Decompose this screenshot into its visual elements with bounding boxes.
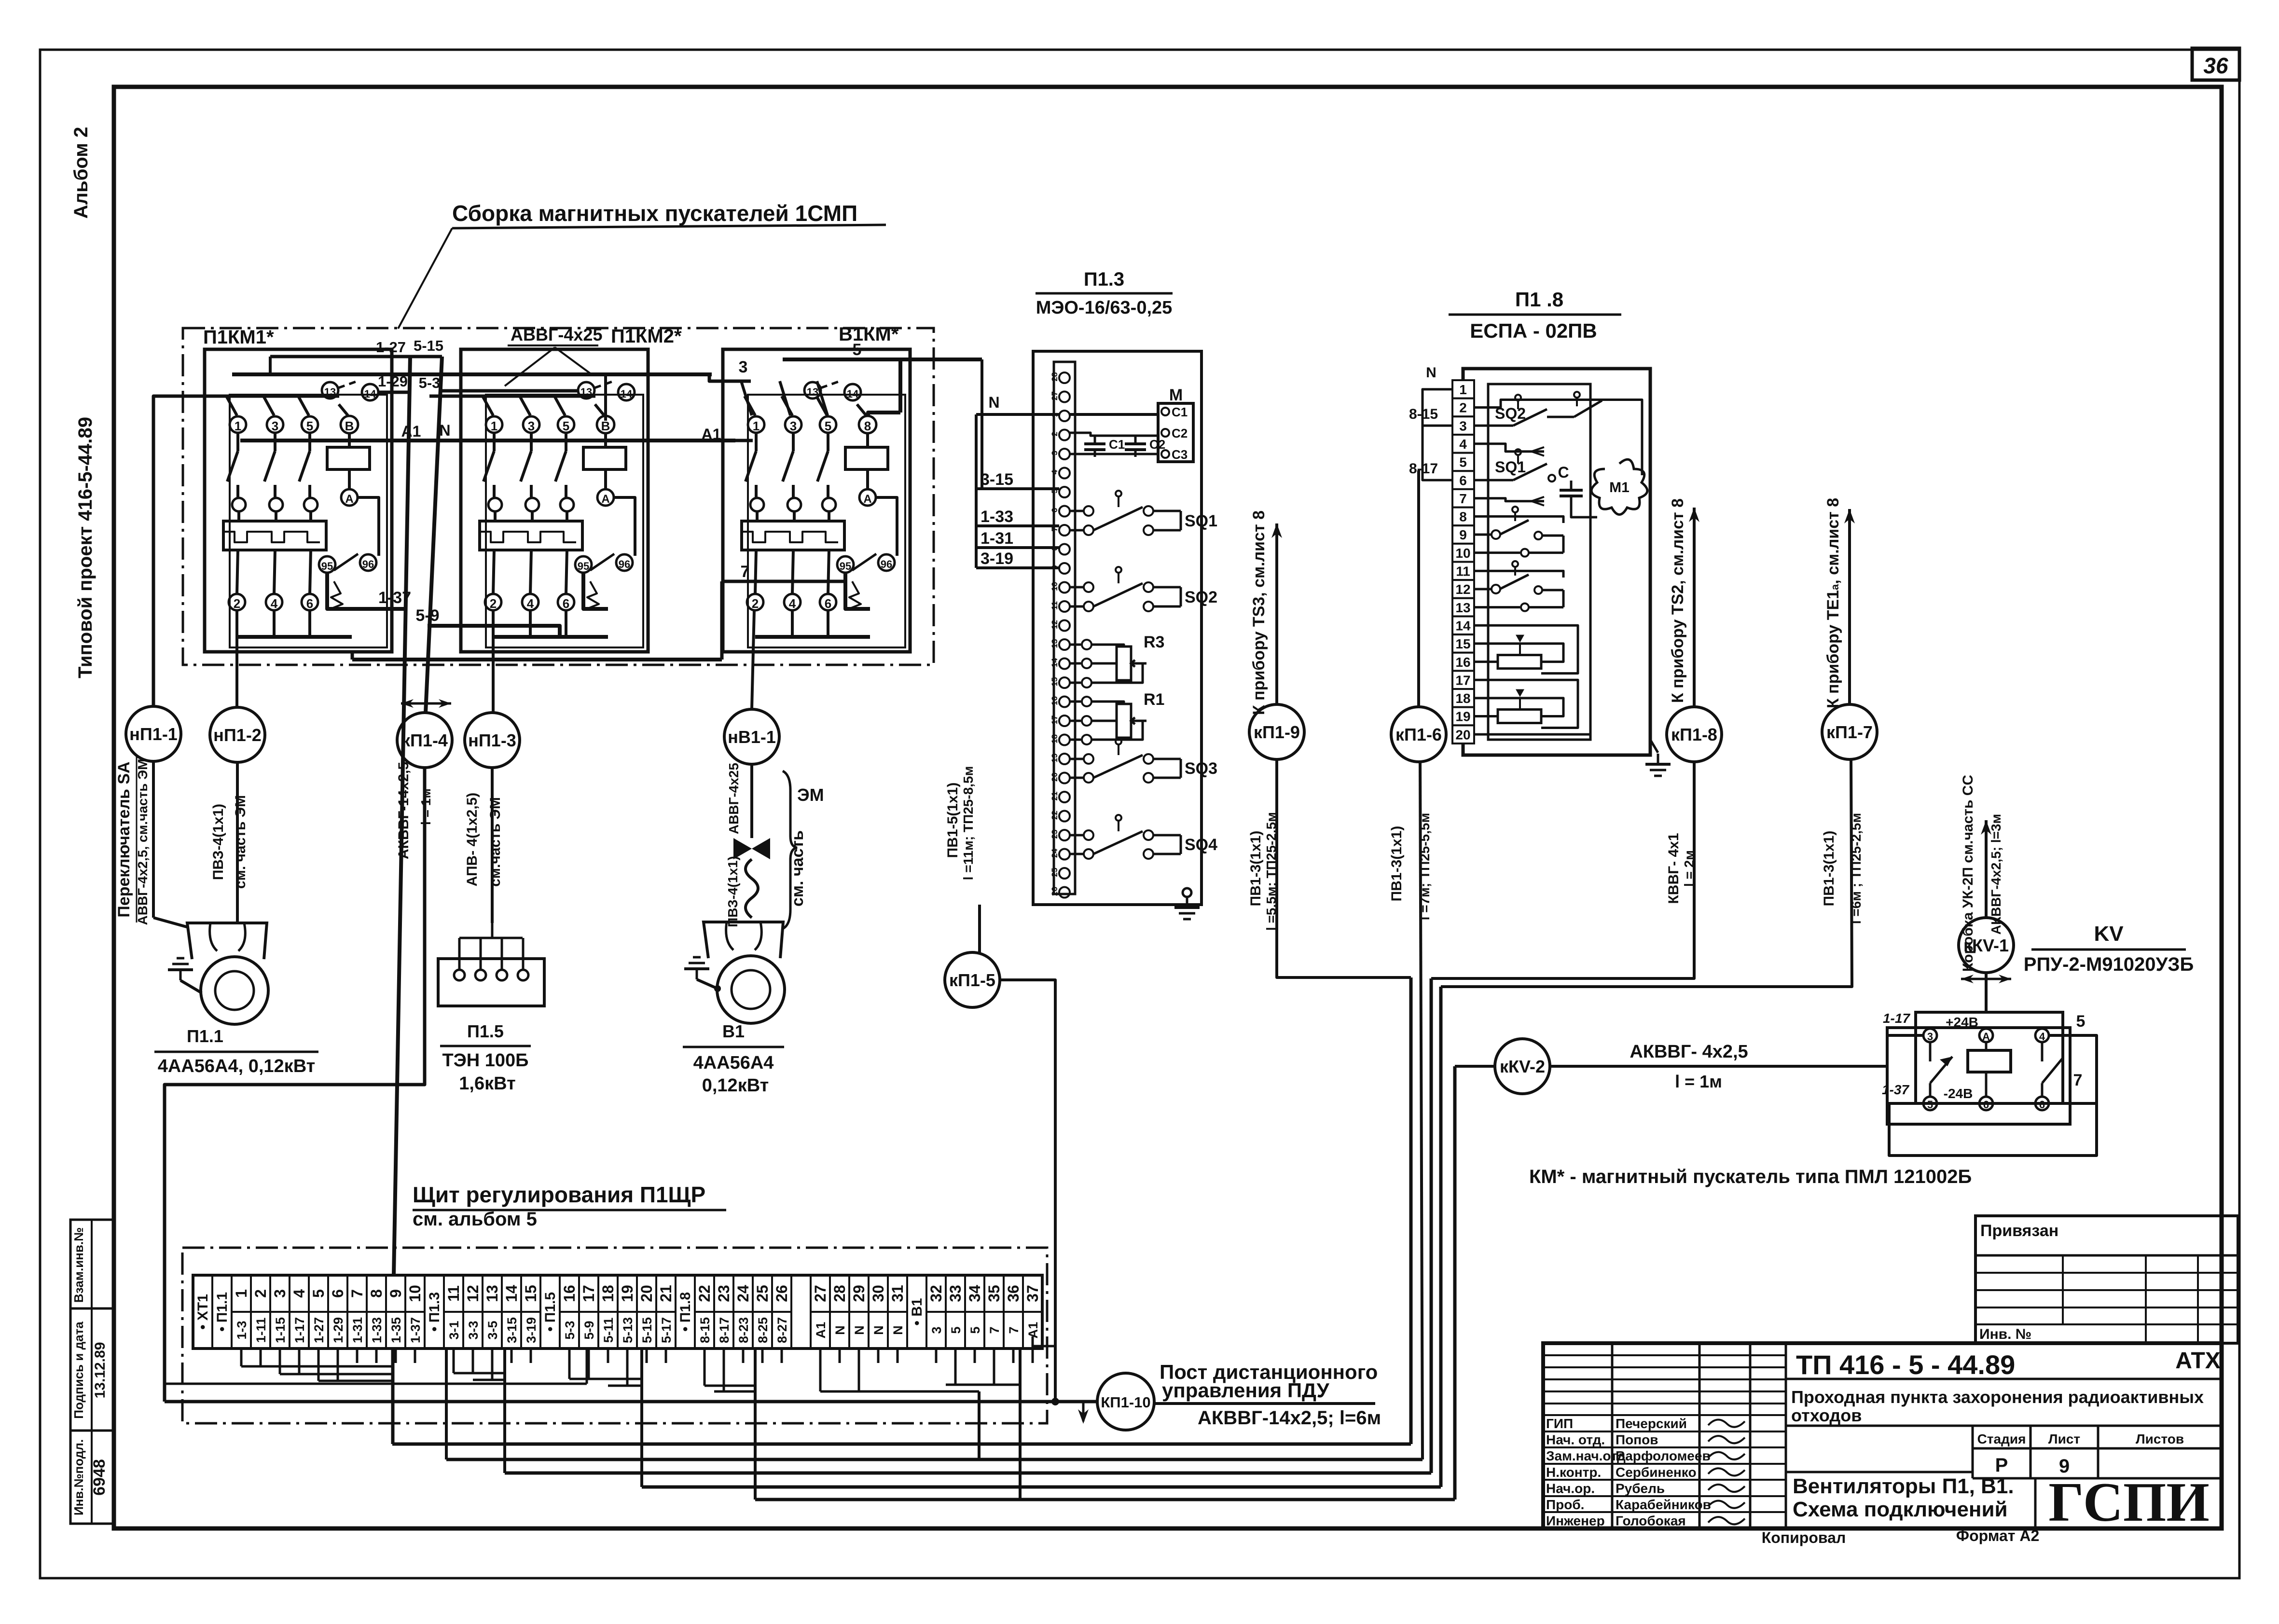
svg-text:КВВГ- 4х1: КВВГ- 4х1: [1666, 833, 1682, 904]
svg-text:21: 21: [1050, 792, 1059, 801]
svg-text:7: 7: [2073, 1071, 2083, 1089]
svg-text:П1.1: П1.1: [187, 1026, 223, 1046]
svg-text:ПВЗ-4(1х1): ПВЗ-4(1х1): [210, 804, 226, 880]
svg-text:8-23: 8-23: [736, 1317, 751, 1343]
svg-text:13: 13: [483, 1285, 501, 1302]
wire: 5-9 exit: [428, 626, 560, 637]
П1.8 terminal 15: [1452, 634, 1474, 653]
svg-text:17: 17: [1455, 673, 1470, 688]
svg-text:3: 3: [272, 419, 278, 433]
limit switch SQ4: [1070, 834, 1083, 837]
svg-text:5-9: 5-9: [415, 606, 439, 625]
svg-text:SQ2: SQ2: [1185, 588, 1217, 606]
svg-text:96: 96: [619, 558, 630, 570]
line up Коробка УК-2П: [1985, 820, 1988, 918]
П1.8 terminal 18: [1452, 689, 1474, 707]
svg-text:N: N: [852, 1325, 867, 1335]
strip terminal 21 / 5-17: [656, 1311, 676, 1313]
П1.3 terminal 10: [1059, 582, 1070, 593]
svg-text:19: 19: [619, 1285, 636, 1302]
svg-text:3-15: 3-15: [981, 470, 1013, 489]
svg-text:КМ* - магнитный пускатель: КМ* - магнитный пускатель типа ПМЛ 12100…: [1529, 1166, 1972, 1187]
inner panel rectangle: [230, 395, 387, 647]
svg-text:28: 28: [831, 1285, 848, 1302]
В1КМ thick top wire 5: [868, 413, 900, 416]
svg-text:Инв.№подл.: Инв.№подл.: [71, 1439, 86, 1515]
svg-text:B: B: [345, 419, 354, 433]
wire terminal 20 to box right: [1474, 733, 1590, 736]
bottom terminal circles 2 4 6: [755, 550, 756, 594]
wire кП1-9 down: [1277, 759, 1411, 977]
wire нП1-2 down to motor П1.1: [236, 762, 239, 923]
resistor at terminals 18-19: [1498, 710, 1541, 723]
strip terminal 12 / 3-3: [463, 1311, 483, 1313]
svg-text:14: 14: [503, 1285, 520, 1302]
R3 circuit: [1117, 647, 1131, 680]
risers from top buses to П1.3: [975, 414, 978, 568]
svg-text:Нач. отд.: Нач. отд.: [1546, 1432, 1605, 1447]
riser col37 down: [445, 1349, 448, 1459]
svg-text:N: N: [833, 1325, 847, 1335]
svg-text:5: 5: [1459, 455, 1467, 470]
svg-text:15: 15: [1455, 636, 1470, 651]
svg-text:ПВЗ-4(1х1): ПВЗ-4(1х1): [725, 856, 740, 927]
thermal relay contacts 95 96: [837, 556, 854, 573]
svg-text:7: 7: [1007, 1326, 1021, 1334]
svg-text:32: 32: [927, 1285, 945, 1302]
wire нП1-3 down to ТЭН П1.5: [491, 768, 494, 923]
svg-text:12: 12: [1455, 582, 1470, 597]
cable splice bow-tie symbol: [733, 838, 752, 859]
svg-text:2: 2: [1459, 400, 1467, 415]
cable node кП1-9: [1249, 704, 1304, 759]
svg-text:3-15: 3-15: [505, 1317, 519, 1343]
vertical riser bus 1-xx: [394, 357, 410, 1275]
svg-text:17: 17: [1050, 716, 1059, 725]
svg-text:Зам.нач.отд: Зам.нач.отд: [1546, 1448, 1626, 1463]
П1.3 terminal 20: [1059, 773, 1070, 784]
svg-text:1: 1: [1459, 382, 1467, 397]
svg-text:5: 5: [825, 419, 831, 433]
wire нВ1-1 down to В1 motor: [750, 764, 753, 838]
wire: П1КМ1 1-37 exit: [352, 607, 404, 611]
wire terminal1 to M C1: [1070, 413, 1157, 416]
svg-text:33: 33: [947, 1285, 964, 1302]
wires below strip (stub drops): [240, 1349, 243, 1363]
svg-text:14: 14: [621, 388, 633, 400]
svg-text:6: 6: [2039, 1099, 2045, 1111]
limit switch SQ3: [1070, 758, 1083, 760]
strip terminal 1 / 1-3: [232, 1311, 251, 1313]
wire нП1-2 from П1КМ1 terminal 2: [235, 610, 238, 707]
svg-text:4: 4: [789, 596, 796, 611]
svg-text:А1: А1: [814, 1322, 828, 1339]
svg-text:Голобокая: Голобокая: [1616, 1514, 1686, 1528]
svg-text:В1: В1: [722, 1021, 745, 1041]
wires 3-15 1-33 1-31 3-19 into П1.3: [976, 487, 1059, 490]
П1.3 terminal 17: [1059, 716, 1070, 726]
dash-dot enclosure box 1СМП: [183, 328, 934, 665]
svg-text:• П1.8: • П1.8: [677, 1292, 693, 1332]
main АВВГ bus: [232, 372, 712, 376]
drop arrow before КП1-10: [1082, 1402, 1085, 1421]
heater П1.5 block: [438, 959, 544, 1006]
svg-text:Попов: Попов: [1616, 1432, 1658, 1447]
П1.3 terminal 8: [1059, 544, 1070, 555]
ground П1.1: [180, 980, 202, 993]
vertical riser bus 5-xx: [426, 357, 442, 713]
svg-text:l = 2м: l = 2м: [1682, 850, 1697, 887]
KV relay outer wire loop: [1889, 1035, 2097, 1156]
top terminal circles 1 3 5 B: [230, 416, 246, 433]
svg-text:• П1.5: • П1.5: [542, 1292, 558, 1332]
cable node кП1-4: [397, 713, 452, 768]
thermal overload relay: [223, 521, 326, 550]
limit switch SQ1: [1070, 510, 1083, 512]
feed into В1КМ (wire 3): [709, 374, 751, 381]
95-96 loop wire to exit: [327, 573, 352, 609]
П1.3 enclosure box: [1033, 351, 1202, 905]
strip terminal 2 / 1-11: [251, 1311, 270, 1313]
svg-text:8: 8: [1459, 509, 1467, 524]
svg-text:5-13: 5-13: [621, 1317, 635, 1343]
coil: [604, 433, 607, 447]
svg-text:Переключатель SA: Переключатель SA: [115, 761, 133, 917]
svg-text:l =11м; ТП25-8,5м: l =11м; ТП25-8,5м: [961, 766, 976, 881]
svg-text:11: 11: [1456, 564, 1470, 579]
П1.3 terminal 13: [1059, 639, 1070, 650]
svg-text:кП1-8: кП1-8: [1671, 725, 1717, 744]
svg-text:21: 21: [657, 1285, 675, 1302]
svg-text:0,12кВт: 0,12кВт: [702, 1075, 769, 1096]
svg-text:1: 1: [753, 419, 760, 433]
svg-text:7: 7: [741, 563, 750, 581]
svg-text:1: 1: [491, 419, 497, 433]
svg-text:20: 20: [1050, 772, 1059, 782]
svg-text:5-17: 5-17: [659, 1317, 674, 1343]
arrow line К прибору TS3: [1275, 523, 1278, 705]
П1.8 terminal 4: [1452, 435, 1474, 453]
svg-text:АВВГ-4х25: АВВГ-4х25: [726, 763, 741, 834]
strip terminal 35 / 7: [984, 1311, 1004, 1313]
svg-text:ГСПИ: ГСПИ: [2048, 1472, 2210, 1533]
svg-text:8: 8: [864, 419, 871, 433]
svg-text:18: 18: [1050, 734, 1059, 743]
П1.3 terminal 3: [1059, 449, 1070, 459]
svg-text:нП1-3: нП1-3: [468, 730, 516, 750]
svg-text:1-37: 1-37: [1882, 1082, 1909, 1097]
svg-text:РПУ-2-М91020УЗБ: РПУ-2-М91020УЗБ: [2024, 954, 2194, 975]
strip terminal 18 / 5-11: [598, 1311, 618, 1313]
svg-text:Формат А2: Формат А2: [1956, 1527, 2040, 1544]
strip terminal 15 / 3-19: [521, 1311, 540, 1313]
svg-text:96: 96: [881, 558, 892, 570]
svg-text:26: 26: [1050, 887, 1059, 896]
svg-text:нП1-1: нП1-1: [129, 724, 178, 744]
contact pair at terminals 9-10: [1474, 534, 1491, 536]
П1ЩР dash-dot enclosure: [182, 1248, 1047, 1423]
relay contact left: [1929, 1042, 1932, 1061]
svg-text:Вентиляторы П1, В1.: Вентиляторы П1, В1.: [1793, 1474, 2014, 1498]
svg-text:кП1-9: кП1-9: [1254, 722, 1300, 742]
svg-text:4АА56А4, 0,12кВт: 4АА56А4, 0,12кВт: [158, 1056, 316, 1076]
svg-text:Сербиненко: Сербиненко: [1616, 1465, 1697, 1480]
П1.8 terminal 19: [1452, 707, 1474, 726]
П1.3 terminal 11: [1059, 601, 1070, 612]
svg-text:см.часть ЭМ: см.часть ЭМ: [487, 797, 503, 887]
svg-text:1-35: 1-35: [389, 1317, 403, 1343]
В1КМ А1 wire: [712, 439, 753, 442]
strip terminal 5 / 1-27: [309, 1311, 328, 1313]
svg-text:SQ3: SQ3: [1185, 759, 1217, 778]
svg-text:А1: А1: [401, 423, 421, 440]
bundle verticals up: [1409, 977, 1413, 1444]
svg-text:5-9: 5-9: [582, 1321, 596, 1339]
svg-text:1-15: 1-15: [273, 1317, 288, 1343]
КП1-10 horizontal wire: [165, 1400, 1097, 1404]
svg-text:SQ1: SQ1: [1495, 458, 1526, 476]
relay terminals top: [1923, 1029, 1937, 1042]
svg-text:8-17: 8-17: [1409, 461, 1438, 477]
svg-text:• ХТ1: • ХТ1: [195, 1294, 211, 1330]
bundle horizontals bottom: [392, 1443, 1411, 1446]
cable node нП1-3: [465, 713, 520, 768]
svg-text:KV: KV: [2094, 922, 2124, 946]
П1.3 terminal 19: [1059, 754, 1070, 764]
motor П1.1 fan cowl: [187, 923, 267, 959]
svg-text:26: 26: [773, 1285, 790, 1302]
svg-text:20: 20: [638, 1285, 655, 1302]
svg-text:36: 36: [2203, 53, 2228, 78]
П1.3 bottom ground: [1033, 903, 1174, 906]
strip terminal 20 / 5-15: [637, 1311, 656, 1313]
relay contact right: [2041, 1042, 2044, 1061]
M terminal С1: [1161, 408, 1169, 415]
svg-text:кП1-6: кП1-6: [1395, 725, 1442, 744]
svg-text:11: 11: [1050, 601, 1059, 610]
cable node нП1-1: [126, 706, 181, 761]
svg-text:2: 2: [1050, 432, 1059, 436]
svg-text:SQ4: SQ4: [1185, 836, 1217, 854]
svg-text:2: 2: [490, 596, 497, 611]
svg-text:6948: 6948: [90, 1459, 109, 1496]
П1.3 terminal 9: [1059, 563, 1070, 574]
wire strip right exit to кП1-5 riser: [1033, 1345, 1055, 1348]
strip terminal 26 / 8-27: [772, 1311, 791, 1313]
svg-text:19: 19: [1455, 709, 1470, 724]
svg-text:Карабейников: Карабейников: [1616, 1497, 1711, 1512]
svg-text:А1: А1: [1026, 1322, 1040, 1339]
svg-text:К прибору TS2, см.лист 8: К прибору TS2, см.лист 8: [1669, 498, 1687, 703]
strip terminal 13 / 3-5: [483, 1311, 502, 1313]
svg-text:1,6кВт: 1,6кВт: [459, 1073, 515, 1094]
resistor at terminals 15-16: [1498, 655, 1541, 669]
main contacts (3 poles): [236, 433, 239, 451]
svg-text:1-33: 1-33: [981, 508, 1013, 526]
svg-text:96: 96: [362, 558, 374, 570]
svg-text:Копировал: Копировал: [1762, 1529, 1846, 1546]
П1.8 terminal 8: [1452, 508, 1474, 526]
svg-text:Подпись и дата: Подпись и дата: [71, 1321, 86, 1419]
incoming feed diagonals: [226, 396, 237, 415]
П1.8 terminal 7: [1452, 489, 1474, 508]
svg-text:АПВ- 4(1х2,5): АПВ- 4(1х2,5): [464, 793, 480, 887]
svg-text:5-11: 5-11: [601, 1318, 616, 1343]
П1.8 terminal 3: [1452, 416, 1474, 435]
svg-text:11: 11: [445, 1285, 462, 1302]
wire: feed bus into П1КМ1 (from нП1-1 riser): [153, 396, 339, 707]
svg-text:ПВ1-3(1х1): ПВ1-3(1х1): [1248, 831, 1264, 907]
svg-text:1-27: 1-27: [376, 339, 406, 356]
wire: П1КМ1 13-14 exit 1-29: [378, 391, 409, 394]
cable node нВ1-1: [724, 709, 779, 764]
ГСПИ logo: [2034, 1478, 2037, 1528]
П1.8 terminal 12: [1452, 580, 1474, 598]
feed bus into П1КМ2: [429, 395, 595, 398]
П1.8 terminal 9: [1452, 525, 1474, 544]
svg-text:3: 3: [1050, 451, 1059, 455]
svg-text:П1.5: П1.5: [467, 1021, 504, 1041]
cable node кКV-2: [1495, 1039, 1550, 1094]
thermal overload relay: [480, 521, 582, 550]
П1.5 terminals: [454, 970, 465, 980]
svg-text:1-29: 1-29: [331, 1317, 345, 1343]
svg-text:3: 3: [271, 1289, 289, 1298]
svg-text:5-3: 5-3: [563, 1321, 577, 1339]
cable junction mark below кКV-1: [1961, 978, 2011, 980]
svg-text:см. часть: см. часть: [788, 830, 807, 907]
limit switch SQ2: [1070, 586, 1083, 589]
collector wires to risers: [240, 1363, 243, 1366]
stage/sheet cells: [1972, 1426, 1974, 1478]
svg-text:35: 35: [985, 1285, 1003, 1302]
KV relay body: [1916, 1012, 2063, 1103]
strip terminal 25 / 8-25: [753, 1311, 772, 1313]
svg-text:АКВВГ-14х2,5: АКВВГ-14х2,5: [396, 762, 412, 859]
svg-text:1-33: 1-33: [370, 1317, 384, 1343]
svg-text:8-15: 8-15: [698, 1317, 712, 1343]
svg-text:К прибору TS3, см.лист 8: К прибору TS3, см.лист 8: [1250, 510, 1268, 715]
svg-text:кП1-4: кП1-4: [401, 730, 448, 750]
svg-text:8-27: 8-27: [775, 1317, 789, 1343]
svg-text:КП1-10: КП1-10: [1101, 1394, 1150, 1411]
svg-text:1-17: 1-17: [292, 1317, 307, 1343]
svg-text:18: 18: [599, 1285, 617, 1302]
svg-text:3: 3: [528, 419, 535, 433]
thermal overload relay: [742, 521, 844, 550]
title block signature rows: [1543, 1414, 1786, 1416]
П1.8 inner box: [1488, 384, 1590, 740]
svg-text:7: 7: [987, 1326, 1002, 1334]
svg-text:-24В: -24В: [1944, 1086, 1973, 1101]
svg-text:Р: Р: [1995, 1455, 2008, 1476]
wire/underline right of КП1-10: [1154, 1402, 1375, 1405]
svg-text:6: 6: [306, 596, 313, 611]
bottom internal bus: [237, 635, 352, 639]
svg-text:• В1: • В1: [909, 1298, 925, 1325]
R1 circuit: [1117, 704, 1131, 738]
svg-text:8-17: 8-17: [717, 1317, 732, 1343]
svg-text:АТХ: АТХ: [2175, 1348, 2221, 1374]
riser 814 through strip to bundle: [391, 1349, 395, 1444]
relay coil: [1968, 1050, 2011, 1072]
svg-text:Альбом 2: Альбом 2: [70, 127, 92, 219]
cable junction mark on кП1-4 riser: [401, 702, 451, 705]
strip terminal 6 / 1-29: [328, 1311, 347, 1313]
strip terminal 4 / 1-17: [290, 1311, 309, 1313]
svg-text:управления ПДУ: управления ПДУ: [1162, 1379, 1329, 1402]
svg-text:l =7м; ТП25-5,5м: l =7м; ТП25-5,5м: [1417, 813, 1432, 921]
svg-text:Проходная пункта захоронения: Проходная пункта захоронения радиоактивн…: [1791, 1387, 2204, 1407]
svg-text:27: 27: [1050, 391, 1059, 400]
svg-text:12: 12: [1050, 620, 1059, 629]
wire нП1-1 down to switch SA: [152, 761, 155, 918]
svg-text:С2: С2: [1172, 426, 1188, 440]
svg-text:5: 5: [1927, 1099, 1933, 1111]
svg-text:8-15: 8-15: [1409, 406, 1438, 422]
svg-text:Инженер: Инженер: [1546, 1514, 1605, 1528]
cable node кП1-7: [1822, 704, 1877, 759]
П1.3 terminal 14: [1059, 659, 1070, 669]
motor П1.1 body: [201, 957, 268, 1024]
svg-text:2: 2: [234, 596, 240, 611]
svg-text:6: 6: [1459, 473, 1467, 488]
svg-text:П1КМ1*: П1КМ1*: [203, 327, 274, 348]
svg-text:25: 25: [754, 1285, 771, 1302]
svg-text:П1КМ2*: П1КМ2*: [611, 326, 682, 347]
svg-text:• П1.3: • П1.3: [427, 1292, 442, 1332]
wire кП1-4 down and across to КП1-10 line: [165, 768, 425, 1402]
П1.3 terminal 6: [1059, 506, 1070, 517]
svg-text:4: 4: [271, 596, 278, 611]
risers from 5-x group: [568, 1363, 571, 1379]
95-96 loop wire to exit: [845, 573, 870, 609]
svg-text:N: N: [1426, 365, 1436, 381]
svg-text:+24В: +24В: [1946, 1015, 1978, 1030]
svg-text:М1: М1: [1609, 480, 1630, 495]
collector wire y=2868: [165, 1383, 587, 1385]
svg-text:3-1: 3-1: [447, 1321, 461, 1339]
П1.3 terminal 25: [1059, 868, 1070, 879]
M terminal С3: [1161, 450, 1169, 458]
svg-text:6: 6: [329, 1289, 346, 1298]
svg-text:5-3: 5-3: [419, 374, 441, 391]
П1.8 terminal 20: [1452, 725, 1474, 743]
arrow line К прибору ТЕ1а: [1848, 509, 1851, 704]
svg-text:отходов: отходов: [1791, 1405, 1862, 1425]
svg-text:кП1-5: кП1-5: [949, 970, 995, 990]
svg-text:A: A: [345, 493, 353, 506]
top terminal circles 1 3 5 B: [486, 416, 502, 433]
svg-text:95: 95: [321, 560, 333, 572]
svg-text:16: 16: [561, 1285, 578, 1302]
svg-text:13: 13: [1455, 600, 1470, 615]
svg-text:Сборка магнитных пускателей: Сборка магнитных пускателей 1СМП: [452, 201, 857, 226]
bottom-left margin stamp table: [70, 1220, 115, 1524]
П1.3 terminal 16: [1059, 697, 1070, 707]
strip terminal 7 / 1-31: [347, 1311, 367, 1313]
title block top thin rows: [1543, 1354, 1786, 1356]
contact pair at terminals 12-13: [1474, 588, 1491, 590]
svg-text:17: 17: [580, 1285, 597, 1302]
svg-text:22: 22: [1050, 811, 1059, 820]
svg-text:1-31: 1-31: [981, 529, 1013, 548]
strip terminal 34 / 5: [965, 1311, 984, 1313]
main contacts (3 poles): [755, 433, 758, 451]
wire кП1-6 down: [1420, 762, 1423, 1459]
svg-text:В1КМ*: В1КМ*: [839, 324, 899, 345]
svg-text:4АА56А4: 4АА56А4: [693, 1053, 774, 1073]
